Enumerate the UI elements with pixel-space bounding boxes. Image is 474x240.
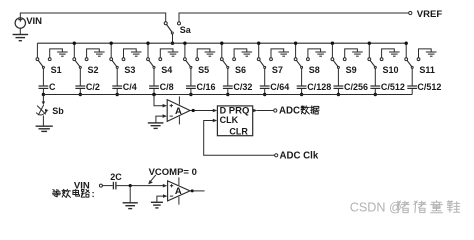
wire S3 throw to ground <box>124 49 137 58</box>
wire S1 throw to ground <box>50 49 63 58</box>
switch S3 <box>110 43 125 68</box>
label S11 <box>419 65 435 75</box>
ground at comparator2 - input <box>151 202 163 208</box>
wire S6 throw to ground <box>234 49 247 58</box>
D flip-flop U2 <box>217 105 252 136</box>
value label C/512 <box>381 82 405 92</box>
svg-text:C/4: C/4 <box>123 82 137 92</box>
capacitor C/256 (cell 9) <box>334 68 344 94</box>
wire ADC Clk to flip-flop CLK input <box>204 119 275 156</box>
node bottom bus junction cell 6 <box>226 93 229 96</box>
node top bus junction S8 <box>294 42 297 45</box>
switch S10 <box>368 43 383 68</box>
svg-text:CLK: CLK <box>220 115 239 125</box>
value label C/512 <box>417 82 441 92</box>
svg-text:A: A <box>175 106 182 117</box>
wire S2 throw to ground <box>87 49 100 58</box>
node top bus junction S2 <box>73 42 76 45</box>
wire Q output to ADC data terminal <box>253 109 273 113</box>
svg-text:C: C <box>49 82 56 92</box>
node 2C output junction <box>129 184 132 187</box>
value label C/16 <box>197 82 216 92</box>
value label C/128 <box>307 82 331 92</box>
wire bus to comparator + input <box>154 95 167 108</box>
wire S5 throw to ground <box>197 49 210 58</box>
svg-text:C/128: C/128 <box>307 82 331 92</box>
ground at comparator - input <box>148 123 164 128</box>
annotation arrow to summing node <box>148 175 156 185</box>
capacitor C (cell 1) <box>39 68 49 94</box>
svg-text:C/2: C/2 <box>86 82 100 92</box>
value label C/8 <box>160 82 174 92</box>
ground at S11 <box>426 52 437 56</box>
svg-text:D: D <box>220 105 227 115</box>
wire bottom plate bus <box>43 94 412 96</box>
capacitor 2C <box>113 182 116 190</box>
svg-text:VIN: VIN <box>26 16 42 27</box>
node top bus junction S7 <box>257 42 260 45</box>
ground below VIN source <box>13 28 29 41</box>
svg-text:ADC Clk: ADC Clk <box>280 151 319 162</box>
svg-text:CSDN @: CSDN @ <box>350 201 402 215</box>
capacitor C/64 (cell 7) <box>260 68 270 94</box>
ground at S6 <box>242 52 253 56</box>
ground at S9 <box>352 52 363 56</box>
label S8 <box>309 65 320 75</box>
svg-text:S11: S11 <box>419 65 435 75</box>
watermark CSDN @猪猪童鞋 <box>350 201 460 215</box>
label S9 <box>346 65 357 75</box>
node top bus junction S11 <box>405 42 408 45</box>
svg-text:C/32: C/32 <box>233 82 252 92</box>
terminal ADC data <box>274 109 277 112</box>
node bottom bus junction cell 3 <box>116 93 119 96</box>
node bottom bus junction cell 2 <box>79 93 82 96</box>
op-amp comparator A (U1) <box>167 96 190 124</box>
capacitor C/4 (cell 3) <box>112 68 122 94</box>
switch Sa <box>164 22 180 34</box>
svg-text:S10: S10 <box>383 65 399 75</box>
label Sb <box>52 106 64 116</box>
label VREF <box>417 9 443 20</box>
node bottom bus junction cell 9 <box>337 93 340 96</box>
switch S4 <box>147 43 162 68</box>
wire comparator output to flip-flop D <box>190 109 217 113</box>
label Sa <box>180 25 192 35</box>
value label C/256 <box>344 82 368 92</box>
node bottom bus junction cell 8 <box>300 93 303 96</box>
label S2 <box>88 65 99 75</box>
wire VIN to Sa contact <box>20 13 165 22</box>
node top bus junction S6 <box>220 42 223 45</box>
svg-text:S3: S3 <box>124 65 135 75</box>
label S1 <box>51 65 62 75</box>
switch S6 <box>220 43 235 68</box>
ground at S8 <box>315 52 326 56</box>
svg-text:CLR: CLR <box>229 127 248 137</box>
svg-text:S6: S6 <box>235 65 246 75</box>
svg-text:VCOMP= 0: VCOMP= 0 <box>149 167 197 178</box>
annotation VCOMP= 0 <box>149 167 197 178</box>
wire S4 throw to ground <box>160 49 173 58</box>
label ADC Clk <box>280 151 319 162</box>
wire comparator - input to ground <box>156 114 167 122</box>
svg-text:VIN: VIN <box>74 180 90 191</box>
node bottom bus junction cell 7 <box>263 93 266 96</box>
wire 2C to comparator + input <box>117 184 168 188</box>
ground at 2C output <box>123 186 138 209</box>
value label C <box>49 82 56 92</box>
node top bus junction S4 <box>146 42 149 45</box>
voltage source VIN <box>15 18 25 29</box>
wire comparator2 - input to ground <box>157 194 168 202</box>
value label C/64 <box>270 82 289 92</box>
node top bus junction S5 <box>183 42 186 45</box>
svg-text:S9: S9 <box>346 65 357 75</box>
wire Sa common to top bus <box>172 34 174 43</box>
capacitor C/512 (cell 10) <box>370 68 380 94</box>
svg-text:Sb: Sb <box>52 106 64 116</box>
svg-text:S5: S5 <box>198 65 209 75</box>
svg-text:S2: S2 <box>88 65 99 75</box>
value label C/32 <box>233 82 252 92</box>
svg-text:C/256: C/256 <box>344 82 368 92</box>
svg-text:S4: S4 <box>161 65 172 75</box>
capacitor C/32 (cell 6) <box>223 68 233 94</box>
label equivalent circuit (等效电路:) <box>52 189 94 199</box>
switch S1 <box>36 43 51 68</box>
wire S11 throw to ground <box>419 49 432 58</box>
value label 2C <box>110 172 122 182</box>
switch S11 <box>405 43 420 68</box>
op-amp comparator A (U3, equivalent) <box>168 177 190 204</box>
wire VREF rail <box>179 13 409 22</box>
switch S8 <box>294 43 309 68</box>
node top bus junction S9 <box>331 42 334 45</box>
label VIN <box>26 16 42 27</box>
terminal ADC Clk <box>275 154 278 157</box>
label S10 <box>383 65 399 75</box>
svg-text:C/16: C/16 <box>197 82 216 92</box>
svg-text:S8: S8 <box>309 65 320 75</box>
ground at S3 <box>131 52 142 56</box>
node bottom bus junction cell 1 <box>42 93 45 96</box>
node Sa junction on top bus <box>171 42 174 45</box>
capacitor C/512 (cell 11) <box>407 68 417 94</box>
switch S2 <box>73 43 88 68</box>
label VIN (equivalent) <box>74 180 90 191</box>
node bottom bus junction cell 10 <box>374 93 377 96</box>
label S7 <box>272 65 283 75</box>
ground at S1 <box>57 52 68 56</box>
capacitor C/8 (cell 4) <box>149 68 159 94</box>
ground at S7 <box>278 52 289 56</box>
ground below Sb <box>36 126 53 131</box>
wire S7 throw to ground <box>271 49 284 58</box>
svg-text:Sa: Sa <box>180 25 192 35</box>
label S5 <box>198 65 209 75</box>
capacitor C/128 (cell 8) <box>297 68 307 94</box>
value label C/2 <box>86 82 100 92</box>
ground at S10 <box>389 52 400 56</box>
node bottom bus junction cell 4 <box>152 93 155 96</box>
svg-text:C/64: C/64 <box>270 82 289 92</box>
wire S9 throw to ground <box>345 49 358 58</box>
terminal VREF <box>409 11 412 14</box>
switch S7 <box>257 43 272 68</box>
node top bus junction S3 <box>110 42 113 45</box>
wire comparator2 output <box>190 189 205 192</box>
terminal VIN input <box>99 184 102 187</box>
wire VIN to 2C <box>103 185 113 187</box>
switch S9 <box>331 43 346 68</box>
label S3 <box>124 65 135 75</box>
svg-text:2C: 2C <box>110 172 122 182</box>
svg-text:S1: S1 <box>51 65 62 75</box>
svg-text:S7: S7 <box>272 65 283 75</box>
svg-text:C/8: C/8 <box>160 82 174 92</box>
value label C/4 <box>123 82 137 92</box>
label S6 <box>235 65 246 75</box>
node top bus junction S10 <box>368 42 371 45</box>
svg-text:VREF: VREF <box>417 9 443 20</box>
capacitor C/2 (cell 2) <box>75 68 85 94</box>
wire S8 throw to ground <box>308 49 321 58</box>
wire top plate bus <box>37 42 406 44</box>
label ADC data (ADC数据) <box>279 106 319 117</box>
switch Sb <box>36 95 48 126</box>
ground at S5 <box>205 52 216 56</box>
svg-text:A: A <box>175 186 182 197</box>
svg-text::: : <box>92 189 95 199</box>
node bottom bus junction cell 5 <box>189 93 192 96</box>
ground at S2 <box>94 52 105 56</box>
label S4 <box>161 65 172 75</box>
svg-text:C/512: C/512 <box>381 82 405 92</box>
capacitor C/16 (cell 5) <box>186 68 196 94</box>
switch S5 <box>184 43 199 68</box>
ground at S4 <box>168 52 179 56</box>
node comparator tap on bottom bus <box>152 93 155 96</box>
svg-text:C/512: C/512 <box>417 82 441 92</box>
svg-text:ADC: ADC <box>279 106 300 117</box>
wire S10 throw to ground <box>382 49 395 58</box>
